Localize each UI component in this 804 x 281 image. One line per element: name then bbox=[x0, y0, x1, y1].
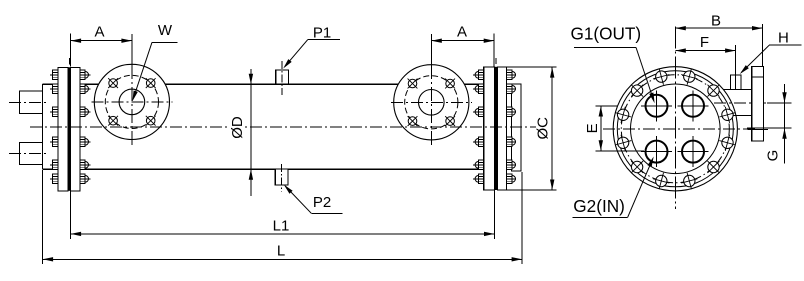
svg-text:G2(IN): G2(IN) bbox=[573, 196, 625, 216]
svg-text:ØD: ØD bbox=[229, 116, 246, 139]
svg-text:E: E bbox=[584, 123, 601, 133]
svg-text:W: W bbox=[158, 22, 173, 39]
svg-text:G: G bbox=[765, 150, 782, 162]
svg-text:ØC: ØC bbox=[535, 117, 552, 140]
svg-text:G1(OUT): G1(OUT) bbox=[571, 23, 642, 43]
svg-text:L1: L1 bbox=[273, 217, 290, 234]
svg-text:A: A bbox=[457, 23, 467, 40]
svg-text:F: F bbox=[700, 34, 709, 51]
svg-text:P2: P2 bbox=[313, 194, 331, 211]
svg-text:B: B bbox=[711, 13, 721, 30]
svg-text:L: L bbox=[277, 242, 285, 259]
svg-text:A: A bbox=[94, 23, 104, 40]
svg-text:H: H bbox=[778, 30, 789, 47]
